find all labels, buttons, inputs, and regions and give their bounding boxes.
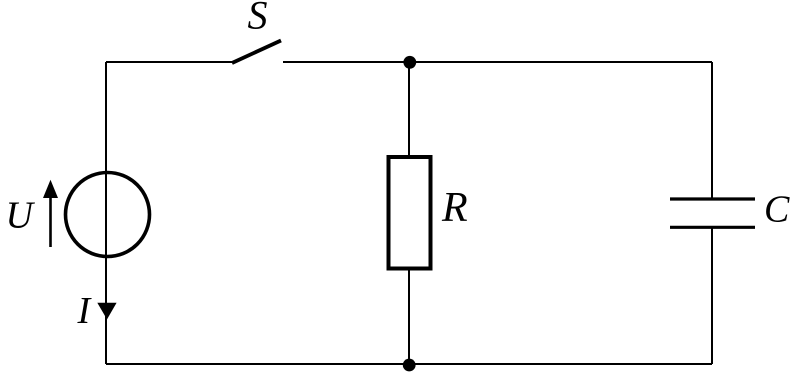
switch S blade bbox=[232, 41, 281, 64]
wire bottom bbox=[106, 363, 712, 365]
wire right bottom (from capacitor) bbox=[711, 227, 713, 364]
svg-text:C: C bbox=[764, 188, 790, 230]
node A junction dot bbox=[403, 56, 416, 69]
wire middle bottom (resistor to node B) bbox=[408, 270, 410, 364]
wire top-left (source to switch) bbox=[106, 61, 232, 63]
source U circle bbox=[66, 173, 150, 257]
current arrowhead (down) bbox=[97, 303, 116, 320]
svg-text:I: I bbox=[77, 290, 93, 332]
voltage arrow (up) bbox=[43, 180, 58, 247]
wire top-right (switch to node A to capacitor) bbox=[283, 61, 712, 63]
wire middle top (node A to resistor) bbox=[408, 62, 410, 155]
svg-text:U: U bbox=[6, 194, 36, 236]
node B junction dot bbox=[403, 359, 416, 372]
svg-text:R: R bbox=[441, 185, 468, 231]
wire right top (to capacitor) bbox=[711, 62, 713, 199]
capacitor C top plate bbox=[670, 197, 755, 200]
resistor R bbox=[389, 157, 431, 269]
svg-text:S: S bbox=[248, 0, 268, 38]
wire left (source branch) bbox=[105, 62, 107, 364]
capacitor C bottom plate bbox=[670, 226, 755, 229]
